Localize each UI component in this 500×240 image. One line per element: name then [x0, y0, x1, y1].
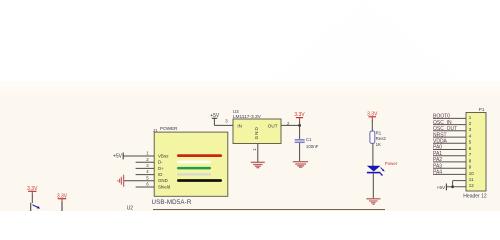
capacitor C1 plates [295, 140, 305, 143]
transistor Q1 arrow [33, 205, 41, 209]
svg-text:R1: R1 [376, 131, 382, 136]
ground under C1 [293, 162, 308, 168]
svg-text:PA3: PA3 [433, 163, 442, 169]
wire pin5 to ground [124, 180, 154, 182]
wire pin8 PA2 [433, 161, 466, 163]
ground under U3 [251, 162, 265, 167]
wire 3.3V down to Q1 [31, 195, 33, 204]
power port 3.3V bottom-left 1 [27, 186, 38, 195]
wire pin1 to +5V [124, 155, 155, 157]
faint watermark pyramid [270, 0, 460, 80]
power port +5V at U3 input [210, 113, 220, 125]
wire pin6 stub [136, 186, 155, 188]
power port 3.3V above R1 [367, 112, 378, 121]
regulator U3 body [233, 119, 281, 144]
svg-text:NRST: NRST [433, 132, 447, 138]
wire C1 to ground [299, 143, 301, 162]
wire U3 pin3 input [214, 124, 233, 126]
wire U3 pin1 gnd [257, 144, 259, 163]
junction node at pin12 [451, 185, 454, 188]
power port 3.3V at U3 output [294, 112, 305, 121]
svg-text:12: 12 [469, 183, 475, 188]
svg-text:GND: GND [158, 178, 168, 183]
svg-text:D+: D+ [158, 166, 164, 171]
svg-text:PA1: PA1 [433, 151, 442, 157]
wire pin4 NRST [433, 136, 466, 138]
wire R1 to LED [372, 143, 374, 166]
wire pin6 PA0 [433, 149, 466, 151]
svg-text:D-: D- [158, 160, 163, 165]
header P1 body [466, 113, 486, 192]
svg-text:Header 12: Header 12 [463, 193, 487, 199]
svg-text:11: 11 [469, 177, 474, 182]
svg-text:U2: U2 [127, 205, 134, 211]
transistor Q1 partial edge [30, 203, 32, 211]
svg-text:+5V: +5V [113, 154, 123, 160]
svg-text:1K: 1K [376, 142, 381, 147]
wire pin1 BOOT0 [433, 117, 466, 119]
wire 3.3V to R1 [371, 120, 373, 131]
regulator pin name GND rotated [254, 126, 259, 139]
wire LED to ground [372, 173, 374, 198]
ground under LED [366, 199, 380, 205]
wire pin10 PA4 [433, 173, 466, 175]
power port +5V at J1 pin1 [113, 153, 123, 160]
header pin numbers 1-12 [469, 115, 475, 188]
svg-text:ID: ID [158, 172, 162, 177]
wire pin2 OSC_IN [433, 124, 466, 126]
svg-text:Power: Power [385, 161, 398, 166]
D- white bar [177, 161, 211, 163]
wire 3.3V down [61, 202, 63, 211]
wire pin7 PA1 [433, 155, 466, 157]
svg-text:100nF: 100nF [306, 144, 319, 149]
svg-text:VDDA: VDDA [433, 139, 448, 145]
svg-text:P1: P1 [479, 107, 485, 112]
svg-text:IN: IN [237, 123, 242, 128]
connector J1 body [154, 132, 228, 196]
wire pin2 stub [136, 161, 155, 163]
svg-text:Res2: Res2 [376, 136, 387, 141]
svg-text:POWER: POWER [160, 126, 178, 131]
wire 3.3V node [299, 121, 301, 139]
svg-text:BOOT0: BOOT0 [433, 114, 450, 120]
wire pin4 stub [136, 174, 155, 176]
wire pin3 OSC_OUT [433, 130, 466, 132]
svg-text:VBus: VBus [158, 153, 169, 158]
wire pin12 [446, 186, 466, 188]
wire vertical pin11-pin12 [452, 181, 454, 187]
LED light arrow 2 [379, 172, 383, 176]
sideways ground at J1 pin5 [118, 175, 124, 187]
power port 3.3V bottom-left 2 [57, 193, 68, 202]
svg-text:U3: U3 [233, 109, 239, 114]
resistor R1 body [370, 131, 375, 143]
svg-text:PA0: PA0 [433, 145, 442, 151]
svg-text:PA4: PA4 [433, 170, 442, 176]
LED light arrow 1 [381, 168, 385, 172]
junction node at U3 output [298, 124, 301, 127]
D+ green bar [177, 167, 211, 170]
wire pin11 [453, 180, 466, 182]
svg-text:G: G [254, 135, 259, 139]
svg-text:PA2: PA2 [433, 157, 442, 163]
svg-text:OUT: OUT [268, 123, 278, 128]
white page top [0, 0, 500, 81]
LED D1 triangle [367, 166, 381, 172]
wire pin9 PA3 [433, 167, 466, 169]
ID gray bar [177, 173, 211, 175]
GND black bar [177, 179, 222, 182]
wire U3 pin2 output [281, 124, 300, 126]
wire pin3 stub [136, 167, 155, 169]
svg-text:Shield: Shield [158, 184, 171, 189]
svg-text:+5V: +5V [437, 185, 446, 191]
VBus red bar [177, 154, 222, 157]
svg-text:N: N [254, 132, 259, 135]
LED D1 cathode bar [367, 172, 381, 174]
svg-text:USB-MD5A-R: USB-MD5A-R [152, 199, 192, 206]
wire pin5 VDDA [433, 142, 466, 144]
svg-text:OSC_OUT: OSC_OUT [433, 126, 457, 132]
svg-text:10: 10 [469, 171, 475, 176]
svg-text:C1: C1 [306, 137, 312, 142]
IC U2 body top edge [153, 210, 385, 211]
svg-text:OSC_IN: OSC_IN [433, 120, 452, 126]
power port +5V at header [437, 184, 447, 192]
